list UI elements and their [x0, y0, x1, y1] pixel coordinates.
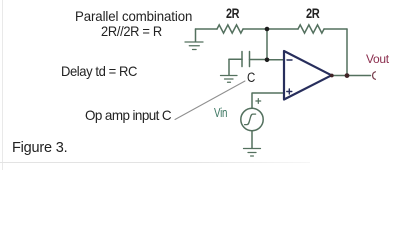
node B junction dot — [265, 58, 270, 63]
ground (capacitor) — [228, 59, 230, 75]
op-amp output pin dot — [330, 74, 334, 78]
label Vin — [214, 106, 227, 120]
resistor R2 (2R) — [298, 25, 324, 33]
Vout open terminal — [373, 72, 376, 80]
ground (source) — [244, 149, 261, 157]
ground (left, input side) — [195, 29, 197, 42]
plus sign of source — [256, 99, 261, 104]
wire: op-amp output to terminal — [332, 75, 371, 77]
label 2R (R2) — [306, 5, 319, 21]
voltage source V1 (Vin step source) — [241, 108, 263, 130]
wire: feedback down to output node — [346, 29, 348, 76]
wire: R2 to feedback corner — [324, 28, 347, 30]
annotation: Delay td = RC — [61, 63, 137, 79]
op-amp U1 — [284, 51, 332, 100]
label Vout — [366, 52, 389, 66]
label C — [247, 70, 255, 85]
resistor R1 (2R) — [217, 25, 243, 33]
label 2R (R1) — [226, 5, 239, 21]
annotation: Parallel combination — [75, 8, 192, 24]
step waveform symbol inside source — [245, 114, 256, 125]
wire: op-amp non-inverting input from source — [252, 93, 284, 108]
wire: source bottom to ground — [251, 131, 253, 148]
wire: node B to op-amp inverting input — [267, 59, 284, 61]
wire: capacitor left lead — [229, 58, 242, 60]
op-amp plus sign — [287, 89, 292, 94]
wire: left ground to R1 — [196, 28, 218, 30]
leader line from "Op amp input C" to capacitor C — [175, 81, 245, 120]
wire: node A down to node B — [266, 29, 268, 60]
output node dot — [345, 73, 350, 78]
caption: Figure 3. — [12, 140, 67, 156]
annotation: Op amp input C — [85, 107, 171, 123]
faint bottom rule — [0, 162, 310, 163]
node A junction dot — [265, 27, 270, 32]
annotation: 2R//2R = R — [101, 23, 162, 39]
faint left border artifact — [2, 0, 3, 170]
wire: R1 to R2 through node A — [243, 28, 298, 30]
wire: capacitor right lead to node B — [250, 59, 268, 61]
op-amp minus sign — [287, 59, 292, 61]
capacitor C plates — [242, 52, 250, 67]
